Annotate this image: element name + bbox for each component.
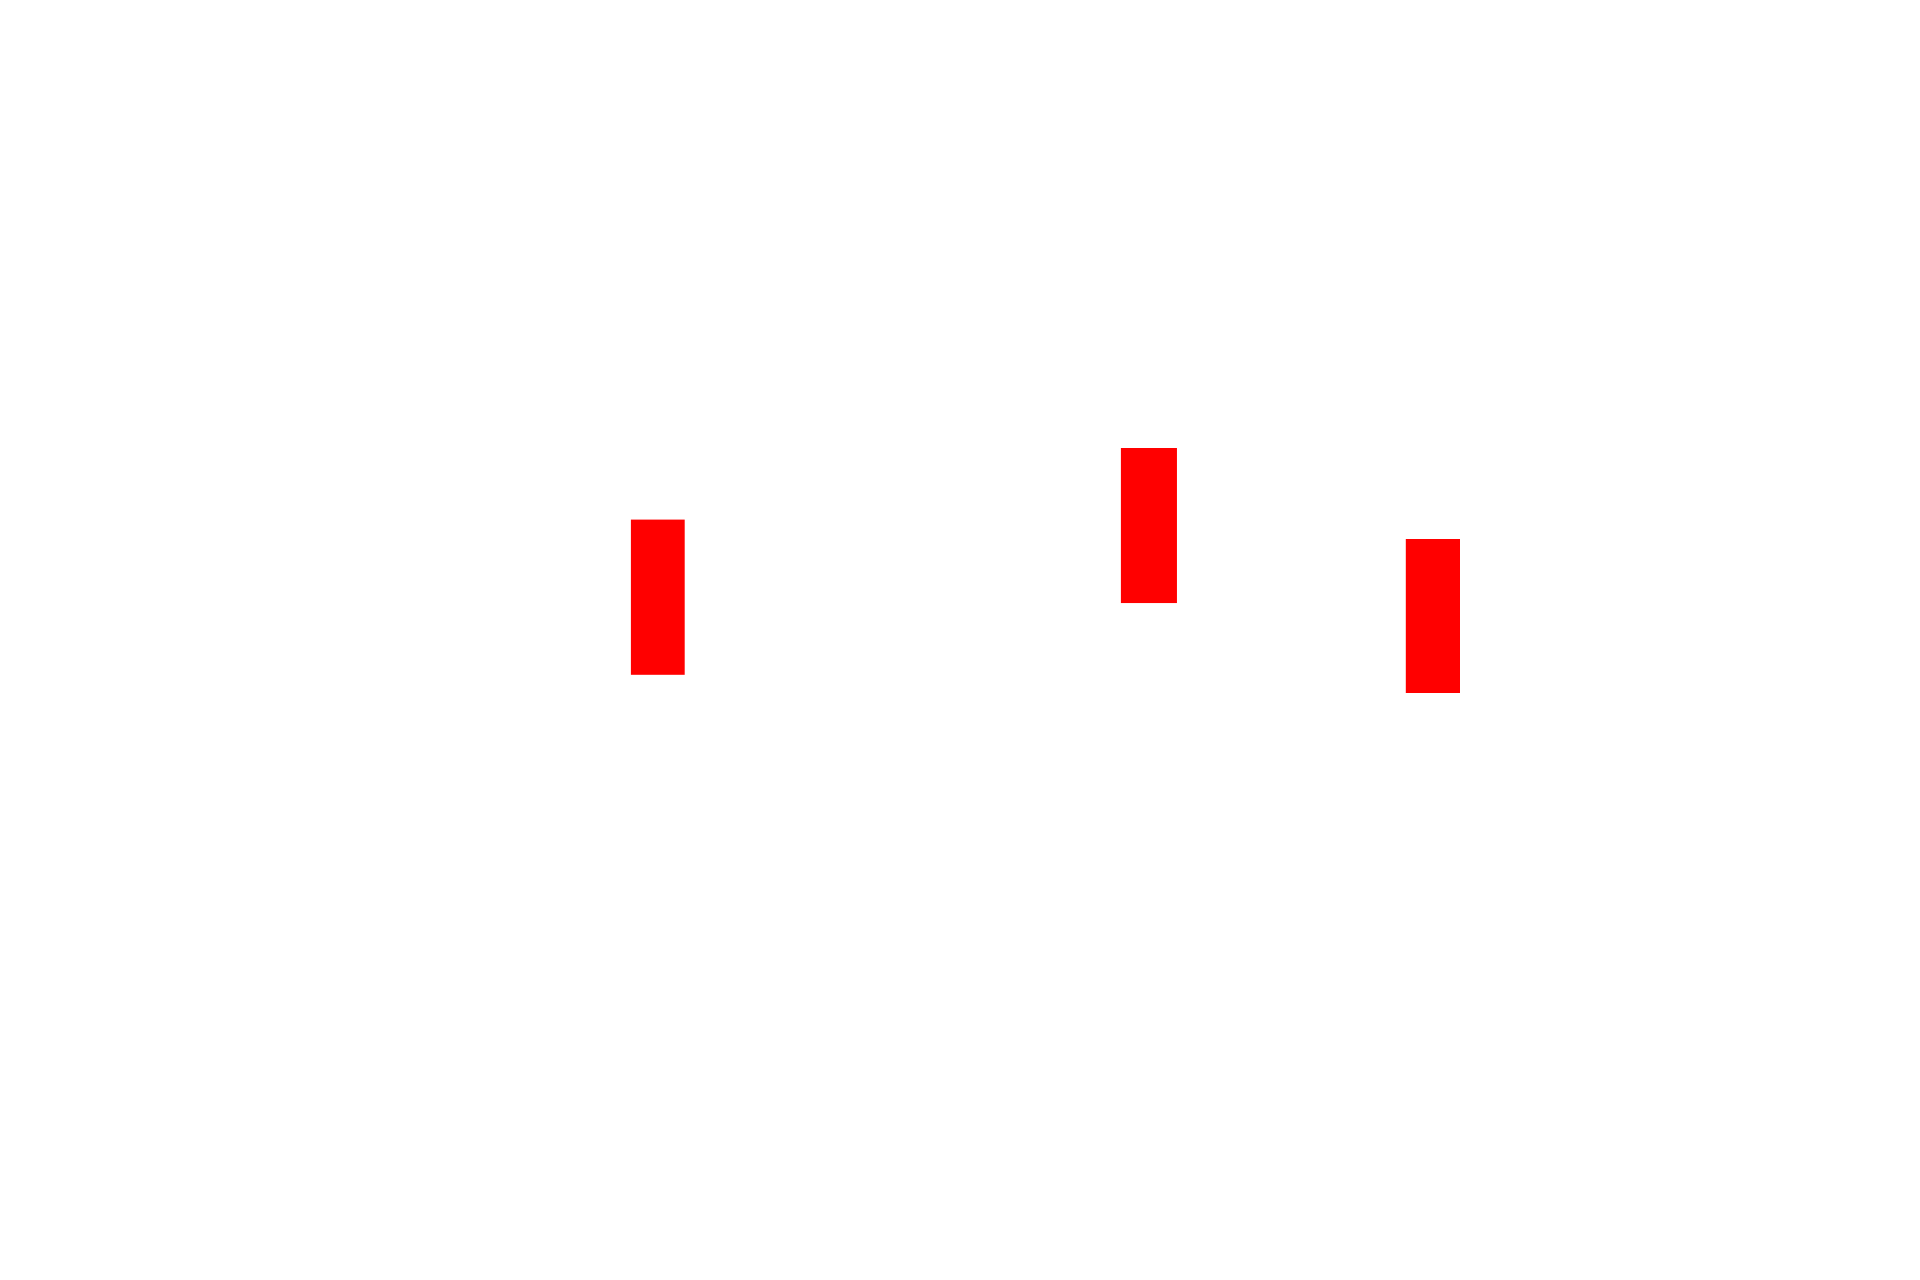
red candle bar 1 (631, 520, 685, 675)
red candle bar 3 (1406, 539, 1460, 693)
red candle bar 2 (1121, 448, 1177, 603)
